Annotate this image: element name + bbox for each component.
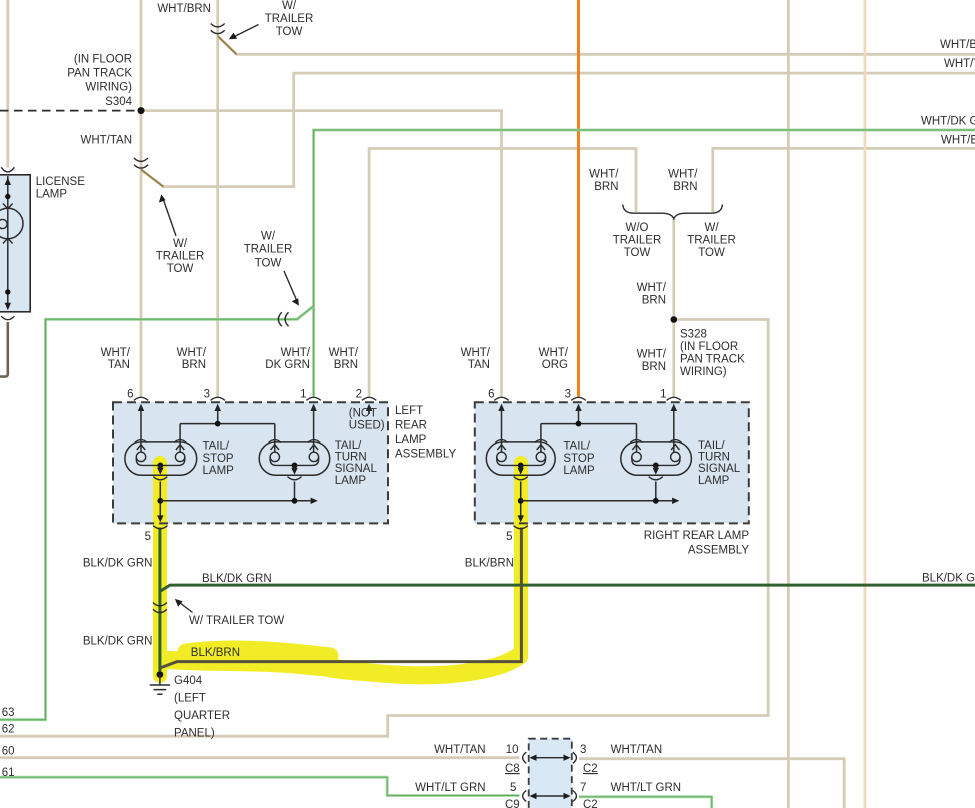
connector row 2 double arrow <box>532 795 568 797</box>
svg-text:WHT/: WHT/ <box>637 282 667 294</box>
license lamp pin arrow up <box>5 178 11 186</box>
svg-text:WHT/: WHT/ <box>177 347 207 359</box>
svg-text:WHT/DK G: WHT/DK G <box>921 116 975 128</box>
svg-text:BRN: BRN <box>673 181 697 193</box>
svg-text:2: 2 <box>356 389 362 401</box>
right box pin 5 arrow down <box>518 515 524 522</box>
wire WHT/DK GRN trailer-tow branch to license side, down to circuit 63 exit <box>0 306 314 720</box>
svg-text:10: 10 <box>506 744 519 756</box>
svg-text:BLK/DK GRN: BLK/DK GRN <box>83 636 153 648</box>
left box pin 3 arrow and lead <box>215 404 221 411</box>
wire WHT/TAN jog diagonal (dark) <box>141 170 163 187</box>
wire WHT/TAN trailer-tow branch (jog, loop to right edge y=73) <box>141 73 975 187</box>
wire BLK/DK GRN branch to right edge y=585 <box>160 585 975 591</box>
svg-text:3: 3 <box>580 744 586 756</box>
wire WHT/BRN vertical x=217.7 (to left pin 3) <box>216 0 219 397</box>
right box pin 3 arrow and lead <box>575 404 581 411</box>
connector C8/C2 box dashed border <box>529 739 572 808</box>
license lamp box fill <box>0 175 30 312</box>
svg-text:LAMP: LAMP <box>563 465 595 477</box>
svg-text:TAN: TAN <box>468 359 490 371</box>
wire BLK/DK GRN left pin 5 down to G404 <box>158 528 161 672</box>
svg-text:QUARTER: QUARTER <box>174 710 230 722</box>
annotation arrow (green W/ TRAILER TOW) <box>284 271 297 300</box>
svg-text:BLK/DK G: BLK/DK G <box>922 573 975 585</box>
left tail/stop lamp entry arcs <box>135 440 187 443</box>
splice S328 junction dot <box>671 316 678 323</box>
svg-text:3: 3 <box>565 389 571 401</box>
license lamp chevrons <box>3 204 13 244</box>
license lamp pin arc bottom <box>1 316 14 320</box>
svg-text:ORG: ORG <box>542 359 568 371</box>
svg-text:TURN: TURN <box>698 452 730 464</box>
left tail/turn lamp coils <box>270 452 279 461</box>
svg-text:WHT/: WHT/ <box>101 347 131 359</box>
right tail/stop lamp stadium <box>486 442 555 475</box>
svg-text:TOW: TOW <box>255 258 282 270</box>
annotation arrow (bottom W/ TRAILER TOW) <box>180 603 193 613</box>
svg-text:BRN: BRN <box>182 359 206 371</box>
svg-text:5: 5 <box>506 531 512 543</box>
right box internal ground bus with arrow <box>521 500 672 502</box>
wire WHT (license lamp feed) vertical x=7.8 <box>6 0 9 168</box>
license lamp internal wire <box>7 176 9 306</box>
svg-text:TRAILER: TRAILER <box>687 235 736 247</box>
wire WHT/TAN connector C2 pin 3 to bottom right <box>579 759 844 808</box>
highlight marker left vertical (pin5 to G404) <box>153 463 167 676</box>
svg-text:ASSEMBLY: ASSEMBLY <box>395 449 456 461</box>
annotation arrow (top W/ TRAILER TOW) <box>234 25 259 38</box>
svg-text:7: 7 <box>580 782 586 794</box>
left tail/turn lamp entry arcs <box>269 440 321 443</box>
inline connector arcs on WHT/TAN x=141 <box>134 158 148 168</box>
license lamp bulb circle <box>0 208 23 238</box>
svg-text:RIGHT REAR LAMP: RIGHT REAR LAMP <box>644 530 750 542</box>
left tail/stop lamp to pin 5 lead <box>159 482 161 517</box>
svg-text:STOP: STOP <box>203 453 234 465</box>
svg-text:TRAILER: TRAILER <box>265 13 314 25</box>
svg-text:ASSEMBLY: ASSEMBLY <box>688 545 749 557</box>
left box pin 3 arc <box>211 397 225 400</box>
svg-text:WIRING): WIRING) <box>680 366 727 378</box>
inline connector arcs on WHT/BRN x=217.7 <box>211 24 225 34</box>
svg-text:TRAILER: TRAILER <box>156 251 205 263</box>
svg-text:WHT/LT GRN: WHT/LT GRN <box>415 782 486 794</box>
left tail/stop lamp center node and arrow <box>157 463 163 469</box>
left tail/stop lamp inner bottom <box>136 457 185 466</box>
left box pin 5 arc <box>153 526 167 529</box>
left box pin 5 arrow down <box>157 515 163 522</box>
svg-text:BRN: BRN <box>642 295 666 307</box>
right tail/stop lamp to pin 5 lead <box>520 482 522 517</box>
svg-text:PAN TRACK: PAN TRACK <box>680 354 745 366</box>
left box pin 6 arrow and lead <box>138 404 144 411</box>
svg-text:S328: S328 <box>680 329 707 341</box>
wire WHT vertical x=788.4 full height <box>787 0 790 808</box>
left tail/turn lamp inner bottom <box>270 457 319 466</box>
highlight marker right vertical (right pin5) <box>514 463 528 657</box>
svg-text:LAMP: LAMP <box>395 434 427 446</box>
svg-text:WHT/BRN: WHT/BRN <box>157 3 211 15</box>
wire WHT/BRN right edge y=148 to brace right arm <box>713 148 975 212</box>
wire WHT/BRN S328 branch right and down to bottom-left exit (circuit 62) <box>0 320 768 737</box>
left tail/stop lamp filament coils <box>136 452 145 461</box>
svg-text:WHT/TAN: WHT/TAN <box>80 135 132 147</box>
wire WHT/LT GRN connector C2 pin 7 to bottom <box>579 797 712 808</box>
svg-text:1: 1 <box>660 389 666 401</box>
svg-text:WHT/: WHT/ <box>589 169 619 181</box>
svg-text:TOW: TOW <box>698 247 725 259</box>
right tail/stop lamp center node and arrow <box>518 463 524 469</box>
wire TAN vertical x=864.9 full height (peach) <box>864 0 867 808</box>
highlight marker bulge under BLK/BRN label <box>186 649 330 656</box>
svg-text:TAN: TAN <box>108 359 130 371</box>
right box pin 6 arrow and lead <box>498 404 504 411</box>
svg-text:WHT/B: WHT/B <box>940 39 975 51</box>
svg-text:TOW: TOW <box>276 26 303 38</box>
right tail/turn lamp coils <box>632 452 641 461</box>
wire WHT/BRN trailer-tow branch to right edge y=54 <box>218 36 975 54</box>
svg-text:W/: W/ <box>173 238 188 250</box>
wire BLK (license lamp return) exits left <box>0 322 8 377</box>
svg-text:TOW: TOW <box>167 263 194 275</box>
license lamp pin arc top <box>1 167 14 172</box>
left box pin 2 arrow (not used) <box>366 404 372 411</box>
svg-text:DK GRN: DK GRN <box>265 359 310 371</box>
right tail/turn signal lamp stadium <box>621 442 692 475</box>
wire WHT/TAN circuit 60 bottom to connector C8 pin 10 <box>0 756 520 759</box>
inline connector arcs on WHT/DK GRN horizontal y=319.3 <box>278 312 288 326</box>
svg-text:LAMP: LAMP <box>36 189 68 201</box>
svg-text:W/ TRAILER TOW: W/ TRAILER TOW <box>189 615 284 627</box>
svg-text:C2: C2 <box>583 799 598 808</box>
svg-text:60: 60 <box>2 746 15 758</box>
svg-text:USED): USED) <box>349 420 385 432</box>
right tail/stop lamp coils <box>497 452 506 461</box>
connector C9 pin 5 arc <box>523 791 527 802</box>
right box pin 3 arc <box>571 397 585 400</box>
wire WHT/DK GRN from right edge y=130 down x=313.6 to left pin 1 <box>314 130 975 397</box>
svg-text:TAIL/: TAIL/ <box>203 441 230 453</box>
svg-text:STOP: STOP <box>563 453 594 465</box>
left tail/turn lamp drop to ground bus <box>294 482 296 501</box>
connector row 1 double arrow <box>532 757 568 759</box>
left rear lamp assembly box dashed border <box>113 402 388 523</box>
svg-text:W/: W/ <box>704 222 719 234</box>
right box pin3 internal branch <box>541 424 637 453</box>
left box pin 1 arc <box>306 397 320 400</box>
right box pin 6 arc <box>494 397 508 400</box>
connector C8/C2 box fill <box>529 739 572 808</box>
svg-text:TURN: TURN <box>335 452 367 464</box>
wire WHT/TAN from S304 to right pin 6 <box>141 111 502 397</box>
wire BLK/BRN from G404 riser to right pin 5 <box>160 528 522 669</box>
left box pin 6 arc <box>134 397 148 400</box>
svg-text:C9: C9 <box>505 799 520 808</box>
right rear lamp assembly box fill <box>475 402 749 523</box>
license lamp filament loop <box>0 219 7 228</box>
right tail/turn lamp drop to ground bus <box>655 482 657 501</box>
svg-text:BLK/DK GRN: BLK/DK GRN <box>202 573 272 585</box>
svg-text:LAMP: LAMP <box>335 475 367 487</box>
svg-text:TRAILER: TRAILER <box>613 235 662 247</box>
left box pin 2 arc <box>362 397 376 400</box>
connector C2 pin 3 arc <box>573 752 577 763</box>
wire WHT/TAN vertical x=141 (to left pin 6) <box>140 0 143 397</box>
svg-text:PAN TRACK: PAN TRACK <box>67 68 132 80</box>
svg-text:G404: G404 <box>174 675 203 687</box>
right tail/turn lamp center node and arrow <box>653 463 659 469</box>
svg-text:WHT/B: WHT/B <box>941 135 975 147</box>
svg-text:TRAILER: TRAILER <box>244 244 293 256</box>
left tail/turn lamp center node and arrow <box>292 463 298 469</box>
license lamp node dots <box>5 194 10 199</box>
svg-text:TAIL/: TAIL/ <box>563 441 590 453</box>
svg-text:LAMP: LAMP <box>698 475 730 487</box>
svg-text:TAIL/: TAIL/ <box>335 440 362 452</box>
right box pin 1 arrow and lead <box>671 404 677 411</box>
highlight marker horizontal (BLK/BRN run) <box>168 656 519 675</box>
svg-text:WHT/: WHT/ <box>668 169 698 181</box>
right tail/stop lamp entry arcs <box>495 440 547 443</box>
svg-text:61: 61 <box>2 767 15 779</box>
svg-text:BRN: BRN <box>334 359 358 371</box>
wire WHT/BRN brace center down to S328 and right pin 1 <box>672 219 675 397</box>
svg-text:LAMP: LAMP <box>203 465 235 477</box>
svg-text:LICENSE: LICENSE <box>36 176 86 188</box>
svg-text:BLK/BRN: BLK/BRN <box>191 647 240 659</box>
svg-text:W/O: W/O <box>626 222 649 234</box>
svg-text:5: 5 <box>145 531 151 543</box>
left tail/stop lamp bottom terminal arc <box>153 477 167 480</box>
right box pin 1 arc <box>667 397 681 400</box>
svg-text:WHT/TAN: WHT/TAN <box>434 744 486 756</box>
wire WHT/BRN left pin 2 up to brace left arm <box>369 149 636 397</box>
svg-text:SIGNAL: SIGNAL <box>698 463 741 475</box>
right tail/stop lamp inner bottom <box>497 457 546 466</box>
highlight marker lower bulge <box>330 663 500 678</box>
lamp entry chevrons <box>137 445 145 450</box>
inline connector arcs on BLK/DK GRN x=159.9 <box>153 603 167 613</box>
splice S304 dashed lead-in <box>0 110 137 112</box>
svg-text:(NOT: (NOT <box>349 408 377 420</box>
svg-text:6: 6 <box>488 389 494 401</box>
svg-text:BRN: BRN <box>642 361 666 373</box>
svg-text:TAIL/: TAIL/ <box>698 440 725 452</box>
svg-text:(IN FLOOR: (IN FLOOR <box>74 54 132 66</box>
right tail/turn lamp inner bottom <box>632 457 680 466</box>
svg-text:WHT/: WHT/ <box>281 347 311 359</box>
connector C2 pin 7 arc <box>573 791 577 802</box>
wire WHT/BRN jog diagonal (dark) <box>218 36 237 54</box>
right tail/turn lamp bottom terminal arc <box>649 477 663 480</box>
splice S304 junction dot <box>138 107 145 114</box>
svg-text:BRN: BRN <box>594 181 618 193</box>
right box pin 5 arc <box>514 526 528 529</box>
svg-text:TOW: TOW <box>624 247 651 259</box>
svg-text:5: 5 <box>510 782 516 794</box>
svg-text:62: 62 <box>2 724 15 736</box>
svg-text:WHT/: WHT/ <box>637 349 667 361</box>
left rear lamp assembly box fill <box>113 402 388 523</box>
right tail/stop lamp bottom terminal arc <box>514 477 528 480</box>
svg-text:WHT/: WHT/ <box>329 347 359 359</box>
wire WHT/ORG vertical x=578.5 to right pin 3 <box>577 0 580 397</box>
svg-text:WIRING): WIRING) <box>85 82 132 94</box>
right rear lamp assembly box dashed border <box>475 402 749 523</box>
svg-text:63: 63 <box>2 707 15 719</box>
svg-text:S304: S304 <box>105 96 132 108</box>
svg-text:WHT/LT GRN: WHT/LT GRN <box>611 782 682 794</box>
svg-text:WHT/: WHT/ <box>539 347 569 359</box>
svg-text:W/: W/ <box>282 0 297 12</box>
annotation arrow (left W/ TRAILER TOW) <box>164 200 177 236</box>
left box internal ground bus with arrow <box>160 500 310 502</box>
left tail/stop lamp stadium <box>125 442 197 475</box>
svg-text:BLK/DK GRN: BLK/DK GRN <box>83 558 153 570</box>
svg-text:W/: W/ <box>261 231 276 243</box>
svg-text:3: 3 <box>204 389 210 401</box>
svg-text:(LEFT: (LEFT <box>174 693 206 705</box>
svg-text:1: 1 <box>300 389 306 401</box>
left box pin3 internal branch <box>180 424 275 453</box>
svg-text:C8: C8 <box>505 763 520 775</box>
brace (W/O vs W/ TRAILER TOW) <box>623 205 723 219</box>
left tail/turn lamp bottom terminal arc <box>288 477 302 480</box>
svg-text:BLK/BRN: BLK/BRN <box>465 558 514 570</box>
svg-text:WHT/TAN: WHT/TAN <box>611 744 663 756</box>
ground G404 symbol <box>157 671 164 678</box>
svg-text:(IN FLOOR: (IN FLOOR <box>680 341 738 353</box>
left box pin 1 arrow and lead <box>310 404 316 411</box>
right tail/turn lamp entry arcs <box>630 440 681 443</box>
svg-text:WHT/: WHT/ <box>461 347 491 359</box>
svg-text:SIGNAL: SIGNAL <box>335 463 378 475</box>
license lamp box solid border <box>0 175 30 312</box>
wire WHT/LT GRN circuit 61 to connector C9 pin 5 <box>0 777 520 795</box>
svg-text:C2: C2 <box>583 763 598 775</box>
svg-text:WHT/T: WHT/T <box>944 58 975 70</box>
svg-text:PANEL): PANEL) <box>174 728 215 740</box>
svg-text:REAR: REAR <box>395 420 427 432</box>
left tail/turn signal lamp stadium <box>259 442 330 475</box>
connector C8 pin 10 arc <box>523 752 527 763</box>
svg-text:6: 6 <box>127 389 133 401</box>
license lamp bottom arrow down <box>5 303 11 311</box>
svg-text:LEFT: LEFT <box>395 405 423 417</box>
